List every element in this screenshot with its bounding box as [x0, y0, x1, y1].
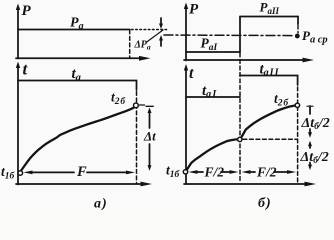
dashed right edge of Pa rectangle — [129, 30, 131, 58]
dash-dot average power line Pa.cp — [164, 34, 294, 37]
svg-text:P: P — [22, 3, 32, 19]
dimension dtb/2 upper shaft — [309, 106, 311, 114]
dimension dtb/2 lower down arrow — [308, 163, 312, 171]
dimension dtb/2 upper: top bar — [307, 105, 313, 107]
dimension dt top bar — [146, 105, 153, 107]
heating curve stage II (b) — [242, 105, 295, 136]
x-axis F (right diagram b, bottom plot) — [184, 182, 316, 187]
svg-text:б): б) — [258, 196, 272, 210]
line ta level with right tick — [18, 81, 137, 91]
svg-text:P: P — [189, 2, 199, 18]
riser between PaI and PaII — [239, 17, 241, 53]
heating curve (a) — [22, 108, 134, 170]
heating curve stage I (b) — [187, 139, 237, 169]
line Pa level (top of rectangle) — [18, 29, 130, 31]
svg-text:F: F — [76, 164, 87, 180]
dimension line F/2 right with outward arrows — [242, 170, 297, 174]
line taII level with right tick — [240, 76, 298, 86]
dimension dt upper shaft with up arrow — [148, 108, 152, 129]
svg-text:F/2: F/2 — [256, 165, 277, 180]
dashed vertical from t2b to x-axis (a) — [136, 92, 138, 184]
dimension dtb/2 upper down arrow — [308, 129, 312, 138]
knee point (b) — [238, 137, 242, 141]
dimension line F/2 left with outward arrows — [189, 170, 239, 174]
dotted continuation of Pa level — [132, 29, 167, 31]
dimension arrow dPa upper (points down to Pa level) — [159, 18, 163, 29]
axis P (left diagram a, top plot) — [16, 4, 20, 59]
dimension arrow dPa lower (points up to average level) — [159, 35, 163, 46]
axis P (right diagram b, top plot) — [184, 3, 188, 61]
leader line from dPa label — [146, 30, 163, 43]
axis t (right diagram b, bottom plot) — [184, 64, 188, 184]
dimension dtb/2 lower up arrow — [308, 141, 312, 148]
svg-text:F/2: F/2 — [204, 165, 225, 180]
line taI level — [186, 96, 240, 98]
axis t (left diagram a, bottom plot) — [16, 62, 20, 185]
svg-text:а): а) — [94, 197, 108, 211]
point t1b (b) — [183, 170, 187, 174]
line PaII step — [240, 16, 298, 18]
dashed middle level line (b) — [243, 138, 297, 140]
line PaI step — [186, 51, 240, 53]
point t2b (a) — [134, 103, 139, 108]
dimension dt lower shaft with down arrow — [148, 144, 152, 171]
dashed vertical at F/2 boundary (b, spans both plots) — [239, 53, 241, 183]
right drop from PaII (solid then dashed) — [297, 17, 299, 25]
svg-text:t: t — [189, 65, 194, 82]
x-axis t (right diagram b, top plot) — [184, 58, 314, 63]
point t1b (a) — [18, 171, 23, 176]
dashed vertical from taII tick to x-axis (b right) — [297, 87, 299, 183]
short dash right of t2b (a) — [140, 104, 145, 106]
dimension line F with outward arrows — [24, 171, 136, 175]
svg-text:Δt: Δt — [143, 129, 156, 144]
point Pa.cp — [295, 34, 300, 39]
x-axis t (left diagram a, top plot) — [16, 56, 151, 61]
x-axis F (left diagram a, bottom plot) — [16, 182, 152, 187]
point t2b (b) — [295, 103, 299, 107]
